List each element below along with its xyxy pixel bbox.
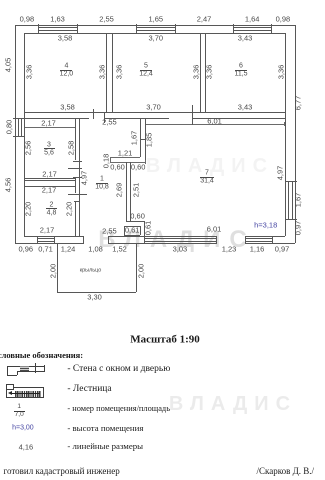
legend row texts [67, 365, 170, 375]
room number/area labels [64, 63, 68, 70]
footer [4, 467, 120, 476]
legend wall icon [7, 366, 44, 367]
legend height sample [12, 424, 34, 431]
legend linear size sample [19, 443, 34, 451]
legend number/area sample [17, 404, 21, 411]
dimension texts [20, 15, 35, 23]
watermark [98, 228, 255, 252]
floor plan walls [15, 25, 294, 26]
scale title [130, 334, 200, 345]
legend stairs icon [6, 387, 44, 398]
legend heading [0, 351, 83, 360]
